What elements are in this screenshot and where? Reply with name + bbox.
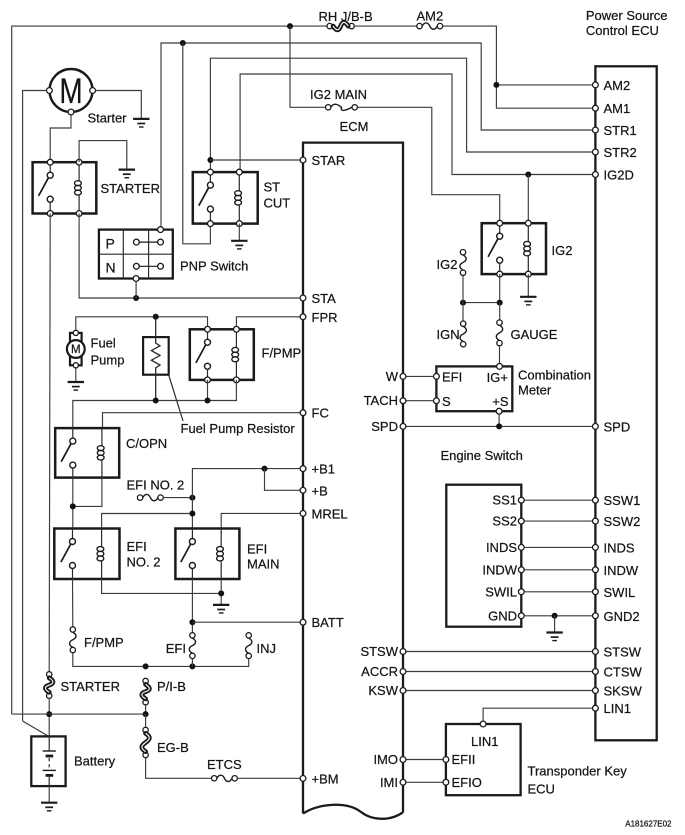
fuse INJ	[246, 633, 252, 659]
wire fuse bottoms bus y666	[73, 653, 249, 667]
relay F/PMP coil	[232, 329, 239, 380]
svg-text:ETCS: ETCS	[207, 757, 242, 772]
junction top bus / IG2 MAIN tap	[287, 23, 293, 29]
wire FC pin to C/OPN coil	[103, 413, 304, 428]
relay IG2 terminals	[497, 220, 531, 277]
svg-text:STAR: STAR	[312, 153, 346, 168]
engine switch pin SS1 wire to ECU SSW1	[492, 493, 595, 508]
wire IG2 MAIN drop and horizontal	[290, 26, 326, 107]
svg-text:EFI NO. 2: EFI NO. 2	[127, 478, 185, 493]
svg-text:GND: GND	[488, 608, 517, 623]
wire battery bus y714	[12, 713, 146, 715]
svg-text:STARTER: STARTER	[61, 679, 120, 694]
engine switch pin INDS wire to ECU INDS	[486, 540, 595, 555]
junction +B branch	[262, 466, 268, 472]
relay ST CUT switch contact	[199, 172, 214, 224]
label Fuel Pump Resistor with pointer	[169, 376, 295, 436]
PNP switch P contact	[134, 239, 164, 245]
junction battery positive	[46, 711, 52, 717]
junction fuse bus right	[497, 300, 503, 306]
svg-text:STA: STA	[312, 291, 337, 306]
combination meter labels	[442, 370, 509, 410]
ECU pin STR2	[593, 145, 637, 160]
ECM pin STA	[300, 291, 336, 306]
wire STARTER relay switch bottom to STARTER fusible link	[49, 214, 50, 672]
ECU pin SSW2	[593, 514, 641, 529]
svg-text:Fuel: Fuel	[91, 336, 116, 351]
ECU pin LIN1	[593, 701, 631, 716]
starter motor terminals	[47, 88, 96, 115]
wire fuse bus horizontal	[463, 302, 500, 304]
wire STARTER relay coil bottom to STA wire	[79, 214, 303, 299]
fuse AM2	[417, 23, 443, 29]
wire STARTER link bottom to battery bus	[48, 698, 50, 736]
svg-text:CTSW: CTSW	[604, 665, 643, 680]
label Combination Meter	[518, 368, 591, 398]
engine switch pin GND wire to ECU GND2	[488, 608, 595, 623]
relay ST CUT terminals	[208, 169, 243, 226]
ECM pin STSW	[360, 644, 405, 659]
svg-text:MREL: MREL	[312, 506, 348, 521]
ECM pin IMO	[373, 752, 405, 767]
ECU pin INDW	[593, 563, 639, 578]
svg-text:IGN: IGN	[437, 327, 460, 342]
svg-text:C/OPN: C/OPN	[126, 436, 167, 451]
ECU pin SWIL	[593, 585, 636, 600]
fuse IG2	[460, 250, 466, 276]
svg-text:LIN1: LIN1	[471, 734, 498, 749]
svg-text:STSW: STSW	[360, 644, 398, 659]
wire GND tap down	[554, 616, 556, 633]
wire STAR pin	[210, 159, 303, 161]
junction P/I-B bottom	[143, 711, 149, 717]
PNP switch internal dividers	[99, 230, 173, 279]
relay IG2 switch contact	[488, 223, 503, 274]
ECU pin AM2	[593, 78, 631, 93]
wire W pin to meter EFI	[403, 375, 434, 377]
ECM pin MREL	[300, 506, 348, 521]
transponder key ECU box U3	[446, 724, 521, 795]
fuse GAUGE	[496, 320, 502, 346]
label Fuel Pump	[91, 336, 125, 368]
wire EFI NO.2 coil top feed	[102, 514, 193, 529]
fuel pump terminals	[73, 330, 78, 368]
ECU pin SKSW	[593, 684, 643, 699]
wire between RH J/B-B and AM2 fuse	[354, 25, 417, 27]
Power Source Control ECU label	[586, 8, 668, 38]
junction resistor bottom	[153, 398, 159, 404]
svg-text:IMO: IMO	[373, 752, 398, 767]
svg-text:STR2: STR2	[604, 145, 637, 160]
label Transponder Key ECU	[528, 764, 628, 797]
junction P/I-B top	[143, 663, 149, 669]
svg-text:INDW: INDW	[604, 563, 639, 578]
ECM pin BATT	[300, 615, 344, 630]
wire STR2 net: STR2 pin to ST CUT switch top	[210, 58, 595, 172]
PNP switch S1 box	[99, 230, 173, 279]
wire BATT pin	[192, 621, 303, 623]
relay STARTER coil	[75, 162, 82, 213]
ECM pin TACH	[364, 393, 406, 408]
fuse IGN	[460, 321, 466, 347]
svg-text:CUT: CUT	[264, 196, 291, 211]
wire SPD across	[403, 425, 595, 427]
junction coil feed on +B1 vertical	[189, 511, 195, 517]
ECU pin STSW	[593, 645, 642, 660]
svg-text:IMI: IMI	[380, 775, 398, 790]
svg-text:SKSW: SKSW	[604, 684, 643, 699]
svg-text:N: N	[106, 259, 116, 275]
relay STARTER box	[33, 162, 97, 213]
svg-text:Meter: Meter	[518, 383, 552, 398]
svg-text:TACH: TACH	[364, 393, 398, 408]
wire IG2 relay coil feed	[527, 175, 529, 224]
wire IG2 relay switch bottom to fuse bus	[499, 274, 501, 303]
junction EFI NO.2 link on +B1 vertical	[189, 495, 195, 501]
fuse F/PMP	[70, 627, 76, 653]
svg-text:EFIO: EFIO	[452, 775, 482, 790]
svg-text:Pump: Pump	[91, 353, 125, 368]
svg-text:SS1: SS1	[492, 493, 517, 508]
PNP switch top terminal	[158, 227, 164, 233]
svg-text:RH J/B-B: RH J/B-B	[319, 9, 373, 24]
junction GND wire ground tap	[552, 613, 558, 619]
svg-text:AM2: AM2	[417, 8, 444, 23]
junction IG2D / IG2 relay coil	[525, 172, 531, 178]
wire ETCS to +BM pin	[238, 777, 304, 779]
wire C/OPN coil bottom to switch line	[73, 478, 102, 507]
svg-text:IG2: IG2	[552, 243, 573, 258]
svg-text:NO. 2: NO. 2	[127, 555, 161, 570]
wire motor left terminal to battery branch	[23, 91, 47, 722]
ground engine switch	[546, 633, 562, 641]
svg-text:+S: +S	[492, 394, 509, 409]
fuse ETCS	[212, 775, 238, 781]
svg-text:SPD: SPD	[604, 419, 631, 434]
svg-text:INDS: INDS	[604, 540, 635, 555]
relay F/PMP switch contact	[196, 329, 211, 380]
svg-text:IG2D: IG2D	[604, 168, 634, 183]
ECU pin IG2D	[593, 168, 634, 183]
ground IG2 relay coil	[520, 297, 536, 305]
fusible link EG-B	[142, 727, 150, 757]
svg-text:FC: FC	[312, 406, 329, 421]
junction BATT wire	[189, 619, 195, 625]
relay C/OPN switch contact	[61, 428, 76, 478]
svg-text:IG2 MAIN: IG2 MAIN	[310, 87, 367, 102]
relay C/OPN box	[55, 428, 119, 478]
wire fuel pump top wire to F/PMP relay switch	[76, 317, 208, 331]
junction fuse bus left	[460, 300, 466, 306]
svg-text:Transponder Key: Transponder Key	[528, 764, 628, 779]
svg-text:SPD: SPD	[371, 419, 398, 434]
PNP switch bottom terminal	[133, 276, 139, 282]
junction F/PMP switch bottom	[205, 398, 211, 404]
svg-text:MAIN: MAIN	[247, 557, 280, 572]
combination meter terminals	[434, 364, 503, 415]
svg-text:IG2: IG2	[437, 257, 458, 272]
wire EFI MAIN switch bottom to EFI fuse	[191, 579, 193, 633]
wire AM2 fuse to AM2/AM1 pins vertical	[443, 26, 596, 108]
wire IMO to EFII	[403, 759, 446, 761]
svg-text:A181627E02: A181627E02	[625, 820, 672, 829]
wire motor bottom terminal to STARTER relay switch	[50, 115, 71, 162]
svg-text:INDS: INDS	[486, 540, 517, 555]
ECM box	[303, 143, 403, 819]
junction STR1 / ST CUT branch	[180, 40, 186, 46]
svg-text:STR1: STR1	[604, 123, 637, 138]
svg-text:EFI: EFI	[166, 641, 186, 656]
svg-text:GND2: GND2	[604, 609, 640, 624]
svg-text:W: W	[386, 369, 399, 384]
svg-text:P: P	[106, 235, 115, 251]
fuel pump M2 body	[67, 333, 85, 365]
wire P/I-B bottom to bus	[145, 704, 147, 714]
svg-text:+BM: +BM	[312, 771, 339, 786]
svg-text:S: S	[442, 394, 451, 409]
svg-text:Control ECU: Control ECU	[586, 23, 659, 38]
wire battery positive bus: left vertical and top horizontal to RH J/B-B	[12, 26, 327, 714]
wire STARTER relay coil top to ground	[79, 141, 127, 170]
transponder EFII pin	[443, 752, 475, 767]
fuel pump resistor element	[151, 317, 160, 401]
ECM pin +B	[300, 483, 328, 498]
ECM pin IMI	[380, 775, 406, 790]
ground starter motor	[133, 119, 149, 127]
wire IG2 relay coil bottom to ground	[527, 274, 529, 297]
junction STAR tap on ST CUT switch wire	[207, 157, 213, 163]
wire GAUGE fuse to combination meter IG+	[499, 346, 501, 364]
wire EG-B feed	[145, 714, 147, 727]
fusible link STARTER	[45, 672, 53, 699]
wire TACH pin to meter S	[403, 400, 434, 402]
fuel pump resistor R1 box	[143, 337, 169, 375]
svg-text:INDW: INDW	[482, 562, 517, 577]
engine switch box	[446, 485, 521, 627]
svg-text:KSW: KSW	[368, 683, 398, 698]
junction +S on SPD wire	[496, 423, 502, 429]
svg-text:STARTER: STARTER	[101, 181, 160, 196]
svg-text:Engine Switch: Engine Switch	[441, 448, 523, 463]
svg-text:Starter: Starter	[88, 111, 128, 126]
wire LIN1 to transponder	[483, 708, 595, 721]
ECM pin KSW	[368, 683, 406, 698]
relay EFI MAIN box	[175, 529, 239, 580]
svg-text:M: M	[71, 344, 81, 356]
relay EFI MAIN coil	[217, 529, 224, 580]
wire C/OPN switch bottom to EFI NO.2 switch top	[72, 478, 74, 529]
ECU pin GND2	[593, 609, 640, 624]
wire IG2 MAIN to IG2 relay switch	[357, 107, 499, 223]
svg-text:BATT: BATT	[312, 615, 344, 630]
wire IG2 fuse below	[462, 275, 464, 321]
relay STARTER switch contact	[39, 162, 54, 213]
wire KSW to SKSW	[403, 690, 595, 692]
svg-text:SSW1: SSW1	[604, 493, 641, 508]
svg-text:ST: ST	[264, 180, 281, 195]
wire IMI to EFIO	[403, 781, 446, 783]
svg-text:ECU: ECU	[528, 782, 555, 797]
svg-text:SSW2: SSW2	[604, 514, 641, 529]
fuse IG2 MAIN	[326, 104, 358, 110]
relay ST CUT coil	[235, 172, 242, 224]
svg-text:AM1: AM1	[604, 101, 631, 116]
ECM pin ACCR	[361, 664, 406, 679]
engine switch pin INDW wire to ECU INDW	[482, 562, 595, 577]
svg-text:PNP Switch: PNP Switch	[180, 259, 248, 274]
ECU pin SPD	[593, 419, 631, 434]
svg-text:EFI: EFI	[442, 370, 462, 385]
combination meter box	[436, 366, 512, 411]
relay ST CUT box	[193, 172, 258, 224]
junction EFI MAIN ground node	[218, 590, 224, 596]
ground battery	[41, 803, 57, 811]
svg-text:EFII: EFII	[452, 752, 476, 767]
relay EFI NO.2 coil	[97, 529, 104, 580]
wire ST CUT switch bottom to STR1 bus	[183, 43, 211, 244]
ECM pin FPR	[300, 310, 337, 325]
fusible link P/I-B	[142, 678, 150, 705]
relay EFI NO.2 box	[54, 529, 119, 580]
svg-text:STSW: STSW	[604, 645, 642, 660]
svg-text:EFI: EFI	[247, 542, 267, 557]
svg-text:LIN1: LIN1	[604, 701, 631, 716]
Power Source Control ECU box U2	[595, 66, 656, 740]
svg-text:EG-B: EG-B	[157, 740, 189, 755]
svg-text:Fuel Pump Resistor: Fuel Pump Resistor	[181, 421, 296, 436]
svg-text:EFI: EFI	[127, 539, 147, 554]
wire PNP bottom terminal to STA junction	[135, 281, 137, 298]
PNP switch N contact	[134, 263, 164, 269]
relay C/OPN coil	[97, 428, 104, 478]
wire meter +S to SPD wire	[498, 414, 500, 426]
svg-text:SWIL: SWIL	[485, 584, 517, 599]
transponder EFIO pin	[443, 775, 482, 790]
transponder top terminal	[480, 721, 486, 727]
svg-text:M: M	[59, 71, 82, 111]
ECU pin STR1	[593, 123, 637, 138]
svg-text:F/PMP: F/PMP	[84, 635, 124, 650]
svg-text:FPR: FPR	[312, 310, 338, 325]
svg-text:IG+: IG+	[487, 370, 508, 385]
junction resistor top on pump wire	[153, 314, 159, 320]
ECM pin +BM	[300, 771, 338, 786]
wire ACCR to CTSW	[403, 671, 595, 673]
relay IG2 box	[482, 223, 546, 274]
ground EFI MAIN coil	[213, 605, 229, 613]
ECM pin STAR	[300, 153, 345, 168]
relay F/PMP box	[190, 329, 254, 380]
svg-text:P/I-B: P/I-B	[157, 679, 186, 694]
svg-text:INJ: INJ	[257, 641, 277, 656]
svg-text:Power Source: Power Source	[586, 8, 668, 23]
fusible link RH J/B-B	[327, 22, 354, 30]
wire AM2 pin horizontal	[496, 84, 595, 86]
relay IG2 coil	[524, 223, 531, 274]
wire MREL pin to EFI MAIN coil	[221, 513, 303, 528]
svg-text:+B1: +B1	[312, 462, 336, 477]
battery B1 box	[31, 736, 65, 786]
wire F/PMP switch bottom drop	[207, 380, 209, 401]
label EFI NO. 2 relay	[127, 539, 161, 570]
battery cells	[43, 736, 56, 786]
svg-text:F/PMP: F/PMP	[262, 346, 302, 361]
wire EFI fuse bottom stub	[191, 658, 193, 666]
svg-text:GAUGE: GAUGE	[511, 327, 558, 342]
wire battery negative to ground	[48, 786, 50, 803]
wire EFI MAIN coil bottom	[220, 579, 222, 605]
fuse EFI	[189, 633, 195, 659]
ECU pin INDS	[593, 540, 635, 555]
wire +B pin branch	[265, 469, 304, 491]
junction EFI fuse bottom	[189, 663, 195, 669]
junction C/OPN outputs	[70, 503, 76, 509]
ECM pin SPD	[371, 419, 406, 434]
starter motor M1	[50, 69, 93, 112]
junction AM2 branch	[493, 82, 499, 88]
ground fuel pump	[68, 382, 84, 390]
ground STARTER relay coil	[119, 170, 135, 178]
wire fuel pump to ground	[75, 368, 77, 382]
ECU pin AM1	[593, 101, 631, 116]
svg-text:ECM: ECM	[340, 119, 369, 134]
wire EFI NO.2 switch bottom to F-PMP fuse	[72, 579, 74, 627]
svg-text:SS2: SS2	[492, 514, 517, 529]
wire pump output bus y400	[73, 380, 237, 428]
ECM pin FC	[300, 406, 329, 421]
wire EFI NO.2 coil bottom to EFI MAIN ground node	[102, 579, 222, 593]
junction PNP bottom on STA wire	[133, 295, 139, 301]
ECU pin SSW1	[593, 493, 641, 508]
ECM pin W	[386, 369, 406, 384]
ground ST CUT coil	[231, 241, 247, 249]
svg-text:+B: +B	[312, 483, 328, 498]
wire IG2D net: IG2D pin to ST CUT coil top	[240, 74, 595, 175]
relay STARTER terminals	[47, 159, 82, 216]
label ST CUT relay	[264, 180, 291, 211]
label EFI MAIN relay	[247, 542, 280, 572]
wire FPR pin to F/PMP relay coil	[236, 317, 303, 330]
relay F/PMP terminals	[205, 326, 240, 382]
wire ST CUT coil bottom to ground	[238, 224, 240, 241]
svg-text:ACCR: ACCR	[361, 664, 398, 679]
engine switch pin SS2 wire to ECU SSW2	[492, 514, 595, 529]
wire STSW to STSW	[403, 651, 595, 653]
relay EFI MAIN switch contact	[181, 529, 196, 580]
wire motor right terminal to ground	[96, 91, 142, 119]
wire EG-B bottom to ETCS	[146, 758, 212, 779]
engine switch pin SWIL wire to ECU SWIL	[485, 584, 595, 599]
ECM pin +B1	[300, 462, 335, 477]
svg-text:Combination: Combination	[518, 368, 591, 383]
fuse EFI NO. 2	[137, 494, 163, 500]
wire GAUGE fuse feed	[499, 303, 501, 320]
relay EFI NO.2 switch contact	[61, 529, 76, 580]
wire +B1 net: pin to EFI MAIN switch	[192, 469, 303, 529]
wire EFI NO.2 link to +B1 vertical	[163, 497, 192, 499]
svg-text:Battery: Battery	[74, 754, 116, 769]
svg-text:SWIL: SWIL	[604, 585, 636, 600]
svg-text:AM2: AM2	[604, 78, 631, 93]
wire STR1 net: STR1 pin to PNP switch top	[161, 43, 595, 227]
ECU pin CTSW	[593, 665, 643, 680]
wire diagonal to battery positive	[23, 721, 49, 736]
